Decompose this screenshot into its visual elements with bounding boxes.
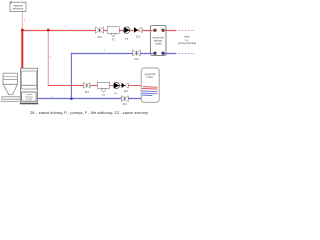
wire: blue dashed to new installation [178, 53, 195, 55]
wire: boiler supply riser (thick) [21, 30, 23, 68]
svg-text:(od wymiennika): (od wymiennika) [178, 42, 196, 45]
wire: blue return main y53 [71, 53, 176, 55]
svg-text:ZZ1: ZZ1 [124, 90, 129, 93]
valve ZK4 on blue return [121, 96, 128, 102]
svg-text:wymiennik: wymiennik [145, 74, 157, 76]
svg-text:ZK2: ZK2 [97, 36, 102, 39]
svg-text:ZK3: ZK3 [134, 58, 139, 61]
DHW tank [141, 68, 159, 102]
svg-text:ciepła: ciepła [155, 43, 162, 46]
label: new heating circuit [178, 36, 196, 45]
hopper floor line [1, 100, 20, 102]
svg-text:ZZ2: ZZ2 [136, 35, 141, 38]
filter F1 [98, 82, 110, 92]
check valve ZZ2 [134, 27, 142, 32]
wire: blue riser x71 [70, 53, 72, 99]
boiler fuel hopper [2, 73, 21, 99]
node: junction DHW riser / main [47, 29, 49, 31]
expansion vessel box [10, 1, 26, 12]
valve ZK1 on DHW supply [84, 83, 90, 89]
wire: red supply main y30 [22, 30, 176, 32]
tank coil (cold side) [142, 91, 158, 96]
pump P2 [123, 27, 129, 33]
svg-text:ZK4: ZK4 [123, 103, 128, 106]
svg-text:wzbiorcze: wzbiorcze [12, 7, 24, 10]
boiler body [20, 68, 38, 104]
pump P1 [113, 82, 119, 88]
filter F2 [107, 27, 119, 37]
wire: red dashed to new installation [178, 30, 195, 32]
wire: blue boiler/DHW return y98.9 [38, 98, 143, 100]
svg-text:r: r [104, 48, 105, 52]
check valve ZZ1 [122, 83, 129, 88]
svg-text:ZK1: ZK1 [85, 91, 90, 94]
valve ZK2 [96, 27, 104, 34]
svg-text:25 kW: 25 kW [26, 99, 32, 101]
valve ZK3 on blue main [133, 50, 140, 56]
node: junction blue riser / return [70, 98, 72, 100]
node: junction vessel riser / main [21, 29, 23, 31]
svg-text:r: r [51, 94, 52, 98]
wire: DHW loop riser [47, 30, 49, 85]
wire: expansion vessel riser [21, 12, 23, 31]
tank coil (hot side) [142, 87, 158, 90]
svg-text:C.W.U.: C.W.U. [146, 77, 154, 79]
plate heat exchanger U1 [150, 26, 166, 56]
wire: DHW supply run y85.4 [48, 85, 142, 87]
svg-text:ZK - zawór kulowy, P - pompa,: ZK - zawór kulowy, P - pompa, F - filtr … [30, 110, 148, 115]
